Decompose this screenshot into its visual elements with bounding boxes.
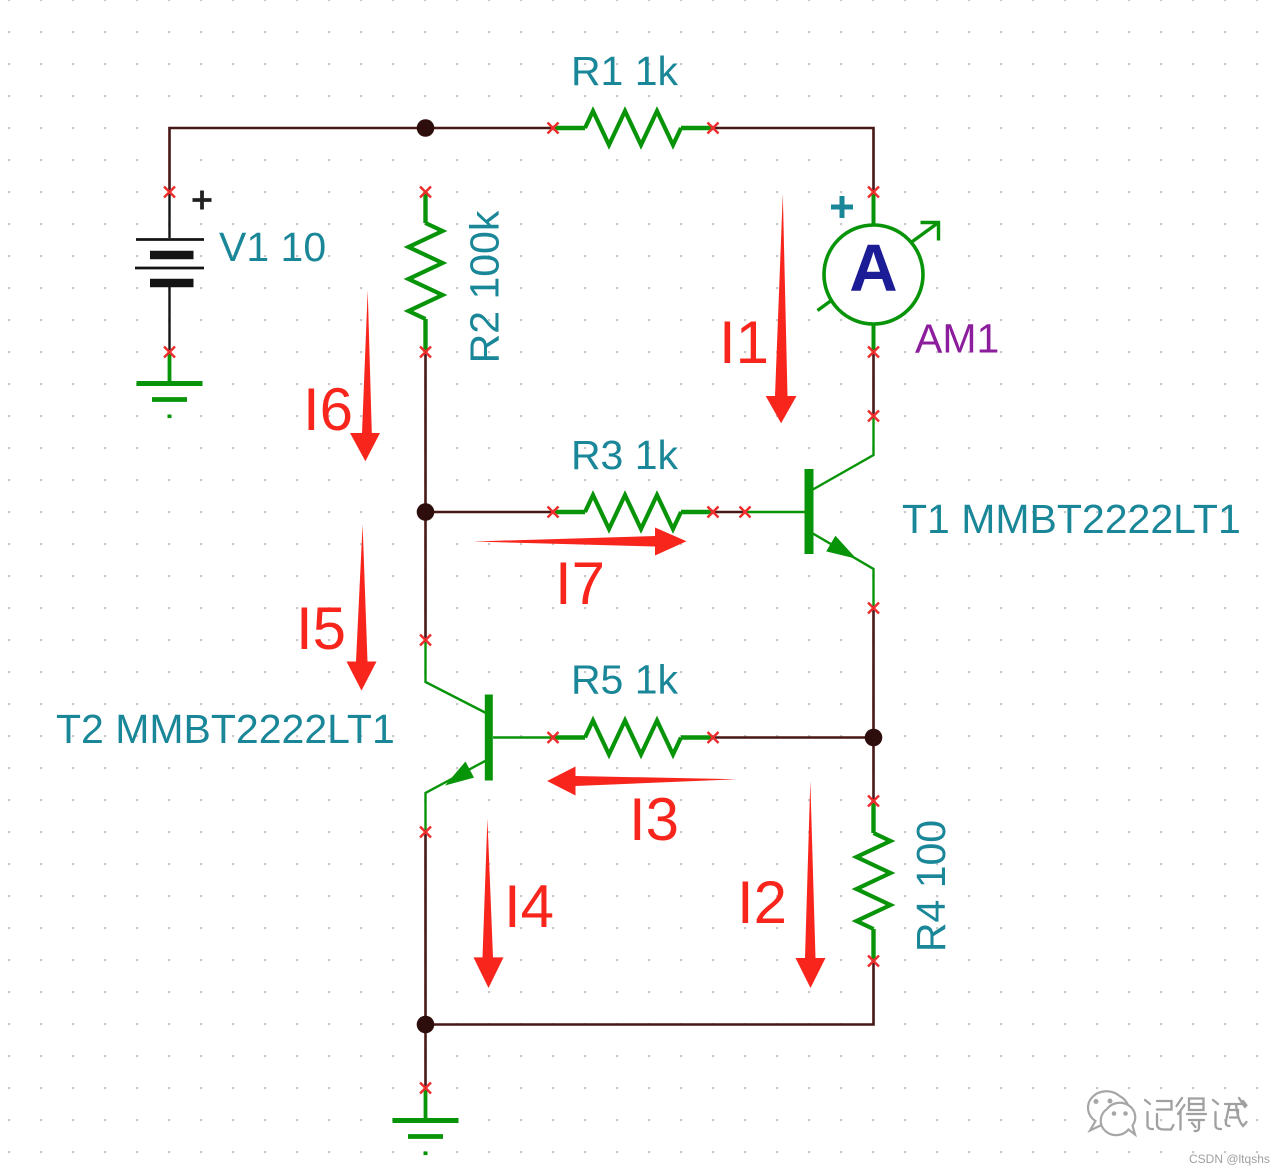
svg-text:I3: I3 [629,786,679,853]
current arrow I7 [473,528,687,556]
pin x R1 left [548,123,559,134]
pin x R2 top [420,187,431,198]
svg-text:I2: I2 [737,869,787,936]
transistor T2 [426,641,554,831]
pin x R2 bottom [420,347,431,358]
svg-text:R1 1k: R1 1k [571,48,679,94]
resistor R3 [553,495,713,529]
resistor R4 [857,801,891,961]
pin x T1 emitter [868,603,879,614]
pin x T2 emitter [420,827,431,838]
wire T1 emitter down to node B [872,608,875,738]
battery V1 [135,191,212,352]
pin x R5 right [708,732,719,743]
svg-text:R5 1k: R5 1k [571,657,679,703]
svg-text:I7: I7 [555,550,605,617]
node bottom junction [417,1016,435,1034]
wire node B down to R4 top pin [872,738,875,802]
pin x AM1 minus [868,347,879,358]
pin x T1 base [740,507,751,518]
svg-text:T1 MMBT2222LT1: T1 MMBT2222LT1 [902,496,1241,542]
wire AM1 bottom to T1 collector pin [872,352,875,416]
transistor T1 [746,417,874,607]
pin x R4 bottom [868,956,879,967]
watermark wechat icon [1088,1091,1135,1135]
node top junction [417,119,435,137]
svg-text:CSDN @ltqshs: CSDN @ltqshs [1189,1152,1270,1166]
wire V1 plus to top node [170,128,425,191]
svg-text:I4: I4 [504,873,554,940]
pin x R3 left [548,507,559,518]
resistor R5 [553,721,713,755]
pin x T2 collector [420,635,431,646]
svg-text:I1: I1 [719,309,769,376]
svg-text:R2 100k: R2 100k [462,210,508,363]
wire R5 right pin to node B [713,736,874,739]
resistor R1 [553,111,713,145]
wire R3 right pin to T1 base pin [713,511,745,514]
pin x ground bottom [420,1083,431,1094]
watermark text [1145,1098,1247,1131]
svg-text:R3 1k: R3 1k [571,432,679,478]
svg-text:R4 100: R4 100 [908,820,954,952]
pin x R3 right [708,507,719,518]
ammeter AM1 [818,192,939,351]
wire node A down to T2 collector pin [424,512,427,640]
svg-text:A: A [849,231,897,306]
svg-text:T2 MMBT2222LT1: T2 MMBT2222LT1 [56,706,395,752]
node A junction [417,503,435,521]
wire top node to R1 left pin [424,127,553,130]
pin x AM1 plus [868,187,879,198]
svg-text:I5: I5 [296,595,346,662]
svg-text:V1 10: V1 10 [219,224,326,270]
wire bottom node to ground [424,1025,427,1089]
wire T2 emitter down to bottom node [424,832,427,1025]
pin x R4 top [868,796,879,807]
pin x V1 minus [164,347,175,358]
wire R4 bottom to bottom rail [426,961,874,1025]
node B junction [865,729,883,747]
svg-text:I6: I6 [303,376,353,443]
current arrow I4 [474,819,504,989]
wire R2 bottom to node A [424,352,427,512]
current arrow I5 [347,524,377,690]
wire R1 right pin to AM1 top [713,128,874,191]
resistor R2 [409,192,443,352]
pin x T1 collector [868,411,879,422]
pin x R1 right [708,123,719,134]
current arrow I1 [766,194,797,424]
pin x R5 left [548,732,559,743]
pin x V1 plus [164,187,175,198]
ground (battery) [137,352,203,418]
current arrow I3 [547,767,737,796]
wire node A to R3 left pin [426,511,554,514]
ground (bottom) [393,1088,459,1155]
svg-text:AM1: AM1 [915,316,999,362]
current arrow I6 [350,290,380,461]
current arrow I2 [796,781,826,988]
